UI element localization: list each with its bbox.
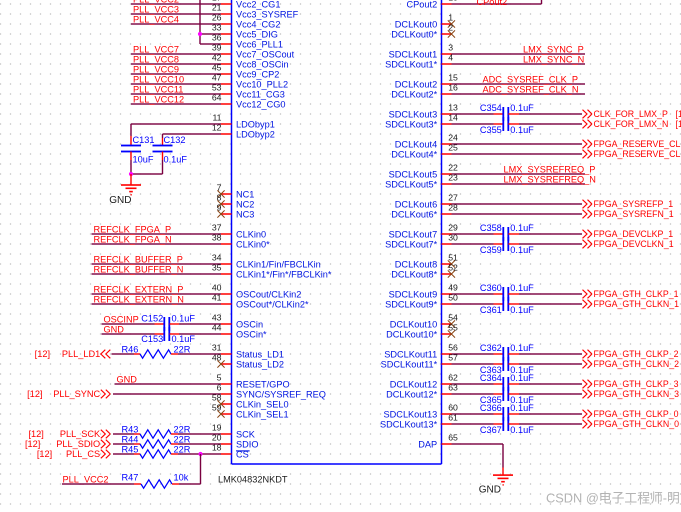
svg-text:SDCLKout3: SDCLKout3 bbox=[389, 110, 438, 120]
svg-text:FPGA_GTH_CLKN_1: FPGA_GTH_CLKN_1 bbox=[594, 299, 680, 309]
svg-text:0.1uF: 0.1uF bbox=[164, 155, 188, 165]
svg-text:DCLKout4*: DCLKout4* bbox=[391, 150, 437, 160]
svg-text:PLL_VCC10: PLL_VCC10 bbox=[133, 75, 184, 85]
svg-text:FPGA_GTH_CLKP_2: FPGA_GTH_CLKP_2 bbox=[594, 349, 679, 359]
svg-text:REFCLK_FPGA_P: REFCLK_FPGA_P bbox=[94, 225, 172, 235]
svg-text:9: 9 bbox=[217, 203, 222, 213]
svg-text:DAP: DAP bbox=[418, 440, 437, 450]
svg-text:CLKin1*/Fin*/FBCLKin*: CLKin1*/Fin*/FBCLKin* bbox=[236, 270, 332, 280]
svg-text:36: 36 bbox=[212, 33, 222, 43]
svg-text:49: 49 bbox=[448, 283, 458, 293]
svg-text:C132: C132 bbox=[164, 135, 186, 145]
svg-text:GND: GND bbox=[479, 484, 501, 495]
svg-text:55: 55 bbox=[448, 323, 458, 333]
svg-text:47: 47 bbox=[212, 73, 222, 83]
svg-text:REFCLK_EXTERN_P: REFCLK_EXTERN_P bbox=[94, 285, 184, 295]
svg-text:43: 43 bbox=[212, 313, 222, 323]
svg-text:CSDN @电子工程师-明: CSDN @电子工程师-明 bbox=[546, 491, 680, 506]
svg-text:22R: 22R bbox=[174, 444, 191, 454]
svg-text:C355: C355 bbox=[480, 125, 502, 135]
svg-text:C354: C354 bbox=[480, 103, 502, 113]
svg-text:C359: C359 bbox=[480, 245, 502, 255]
svg-text:SDCLKout13: SDCLKout13 bbox=[384, 410, 438, 420]
svg-text:R44: R44 bbox=[122, 434, 139, 444]
svg-text:PLL_SDIO: PLL_SDIO bbox=[56, 439, 100, 449]
svg-text:0.1uF: 0.1uF bbox=[510, 125, 534, 135]
svg-text:[12]: [12] bbox=[25, 439, 40, 449]
svg-text:10uF: 10uF bbox=[133, 155, 154, 165]
svg-text:51: 51 bbox=[448, 253, 458, 263]
svg-text:DCLKout4: DCLKout4 bbox=[395, 140, 437, 150]
svg-text:29: 29 bbox=[448, 223, 458, 233]
svg-text:0.1uF: 0.1uF bbox=[172, 314, 196, 324]
svg-text:C361: C361 bbox=[480, 305, 502, 315]
svg-text:57: 57 bbox=[448, 353, 458, 363]
svg-text:61: 61 bbox=[448, 413, 458, 423]
svg-text:22R: 22R bbox=[174, 434, 191, 444]
svg-text:NC2: NC2 bbox=[236, 200, 254, 210]
svg-text:SDCLKout3*: SDCLKout3* bbox=[385, 120, 438, 130]
svg-text:3: 3 bbox=[448, 43, 453, 53]
svg-text:CLKin1/Fin/FBCLKin: CLKin1/Fin/FBCLKin bbox=[236, 260, 321, 270]
svg-text:0.1uF: 0.1uF bbox=[510, 245, 534, 255]
svg-text:0.1uF: 0.1uF bbox=[510, 305, 534, 315]
svg-text:0.1uF: 0.1uF bbox=[510, 343, 534, 353]
svg-text:34: 34 bbox=[212, 253, 222, 263]
svg-text:64: 64 bbox=[212, 93, 222, 103]
svg-text:21: 21 bbox=[212, 3, 222, 13]
svg-text:OSCout/CLKin2: OSCout/CLKin2 bbox=[236, 290, 301, 300]
svg-text:CLK_FOR_LMX_P: CLK_FOR_LMX_P bbox=[594, 109, 668, 119]
svg-text:LMX_SYSREFREQ_N: LMX_SYSREFREQ_N bbox=[504, 175, 596, 185]
svg-text:PLL_VCC7: PLL_VCC7 bbox=[133, 45, 179, 55]
svg-text:14: 14 bbox=[448, 113, 458, 123]
svg-text:CLKin0*: CLKin0* bbox=[236, 240, 270, 250]
svg-text:Vcc4_CG2: Vcc4_CG2 bbox=[236, 20, 280, 30]
svg-text:FPGA_GTH_CLKP_3: FPGA_GTH_CLKP_3 bbox=[594, 379, 679, 389]
svg-text:CLK_FOR_LMX_N: CLK_FOR_LMX_N bbox=[594, 119, 669, 129]
svg-text:22R: 22R bbox=[174, 424, 191, 434]
svg-text:R43: R43 bbox=[122, 424, 139, 434]
svg-text:SDCLKout9: SDCLKout9 bbox=[389, 290, 438, 300]
svg-text:OSCout*/CLKin2*: OSCout*/CLKin2* bbox=[236, 300, 309, 310]
svg-text:DCLKout12*: DCLKout12* bbox=[386, 390, 437, 400]
svg-text:SDCLKout9*: SDCLKout9* bbox=[385, 300, 438, 310]
svg-text:Vcc12_CG0: Vcc12_CG0 bbox=[236, 100, 286, 110]
svg-text:Vcc10_PLL2: Vcc10_PLL2 bbox=[236, 80, 288, 90]
svg-text:20: 20 bbox=[212, 433, 222, 443]
svg-text:LMX_SYNC_P: LMX_SYNC_P bbox=[523, 45, 584, 55]
svg-text:NC1: NC1 bbox=[236, 190, 254, 200]
svg-text:65: 65 bbox=[448, 433, 458, 443]
svg-text:SDCLKout5*: SDCLKout5* bbox=[385, 180, 438, 190]
svg-text:DCLKout10*: DCLKout10* bbox=[386, 330, 437, 340]
svg-text:Vcc2_CG1: Vcc2_CG1 bbox=[236, 0, 280, 10]
svg-text:C131: C131 bbox=[133, 135, 155, 145]
svg-text:[12]: [12] bbox=[28, 429, 43, 439]
svg-text:PLL_VCC8: PLL_VCC8 bbox=[133, 55, 179, 65]
svg-text:DCLKout6: DCLKout6 bbox=[395, 200, 437, 210]
svg-text:45: 45 bbox=[212, 63, 222, 73]
svg-text:C367: C367 bbox=[480, 425, 502, 435]
svg-text:Vcc9_CP2: Vcc9_CP2 bbox=[236, 70, 279, 80]
svg-text:PLL_VCC4: PLL_VCC4 bbox=[133, 15, 179, 25]
svg-text:SDCLKout11: SDCLKout11 bbox=[384, 350, 437, 360]
svg-text:FPGA_GTH_CLKN_0: FPGA_GTH_CLKN_0 bbox=[594, 419, 680, 429]
svg-text:59: 59 bbox=[212, 403, 222, 413]
svg-text:LDObyp2: LDObyp2 bbox=[236, 130, 275, 140]
svg-text:53: 53 bbox=[212, 83, 222, 93]
svg-text:C362: C362 bbox=[480, 343, 502, 353]
svg-text:RESET/GPO: RESET/GPO bbox=[236, 380, 290, 390]
svg-text:REFCLK_BUFFER_N: REFCLK_BUFFER_N bbox=[94, 265, 184, 275]
svg-text:FPGA_DEVCLKP_1: FPGA_DEVCLKP_1 bbox=[594, 229, 674, 239]
svg-text:Vcc3_SYSREF: Vcc3_SYSREF bbox=[236, 10, 299, 20]
svg-text:DCLKout10: DCLKout10 bbox=[390, 320, 438, 330]
svg-text:0.1uF: 0.1uF bbox=[510, 373, 534, 383]
svg-text:CPout2: CPout2 bbox=[477, 0, 508, 7]
svg-text:33: 33 bbox=[212, 23, 222, 33]
svg-text:0.1uF: 0.1uF bbox=[510, 223, 534, 233]
svg-text:PLL_VCC12: PLL_VCC12 bbox=[133, 95, 184, 105]
svg-text:31: 31 bbox=[212, 343, 222, 353]
svg-text:ADC_SYSREF_CLK_N: ADC_SYSREF_CLK_N bbox=[483, 85, 579, 95]
svg-text:GND: GND bbox=[117, 375, 138, 385]
svg-text:5: 5 bbox=[217, 373, 222, 383]
svg-text:FPGA_DEVCLKN_1: FPGA_DEVCLKN_1 bbox=[594, 239, 674, 249]
svg-text:PLL_VCC2: PLL_VCC2 bbox=[63, 475, 109, 485]
svg-text:13: 13 bbox=[448, 103, 458, 113]
svg-text:10: 10 bbox=[448, 0, 458, 3]
svg-text:23: 23 bbox=[448, 173, 458, 183]
svg-text:56: 56 bbox=[448, 343, 458, 353]
svg-text:PLL_VCC9: PLL_VCC9 bbox=[133, 65, 179, 75]
svg-text:DCLKout0*: DCLKout0* bbox=[391, 30, 437, 40]
svg-text:7: 7 bbox=[217, 183, 222, 193]
svg-text:CLKin0: CLKin0 bbox=[236, 230, 266, 240]
svg-text:C364: C364 bbox=[480, 373, 502, 383]
svg-text:DCLKout12: DCLKout12 bbox=[390, 380, 438, 390]
svg-text:SDCLKout11*: SDCLKout11* bbox=[381, 360, 438, 370]
svg-text:50: 50 bbox=[448, 293, 458, 303]
svg-text:FPGA_GTH_CLKP_1: FPGA_GTH_CLKP_1 bbox=[594, 289, 679, 299]
svg-text:FPGA_GTH_CLKP_0: FPGA_GTH_CLKP_0 bbox=[594, 409, 679, 419]
svg-text:FPGA_RESERVE_CLK_P: FPGA_RESERVE_CLK_P bbox=[594, 139, 681, 149]
svg-text:PLL_VCC3: PLL_VCC3 bbox=[133, 5, 179, 15]
svg-text:PLL_LD1: PLL_LD1 bbox=[62, 349, 100, 359]
svg-text:DCLKout8*: DCLKout8* bbox=[391, 270, 437, 280]
svg-text:SDIO: SDIO bbox=[236, 440, 258, 450]
svg-text:40: 40 bbox=[212, 283, 222, 293]
svg-text:PLL_VCC11: PLL_VCC11 bbox=[133, 85, 183, 95]
svg-text:38: 38 bbox=[212, 233, 222, 243]
svg-text:0.1uF: 0.1uF bbox=[510, 403, 534, 413]
svg-text:LMX_SYSREFREQ_P: LMX_SYSREFREQ_P bbox=[504, 165, 596, 175]
svg-text:PLL_CS: PLL_CS bbox=[66, 449, 100, 459]
svg-text:0.1uF: 0.1uF bbox=[510, 283, 534, 293]
svg-text:Status_LD1: Status_LD1 bbox=[236, 350, 284, 360]
svg-text:15: 15 bbox=[448, 73, 458, 83]
svg-text:C152: C152 bbox=[141, 314, 163, 324]
svg-text:DCLKout2: DCLKout2 bbox=[395, 80, 437, 90]
svg-text:25: 25 bbox=[448, 143, 458, 153]
svg-text:CPout2: CPout2 bbox=[407, 0, 438, 10]
svg-text:R45: R45 bbox=[122, 444, 139, 454]
svg-text:SDCLKout5: SDCLKout5 bbox=[389, 170, 438, 180]
svg-text:26: 26 bbox=[212, 13, 222, 23]
svg-text:REFCLK_EXTERN_N: REFCLK_EXTERN_N bbox=[94, 295, 184, 305]
svg-text:FPGA_GTH_CLKN_3: FPGA_GTH_CLKN_3 bbox=[594, 389, 680, 399]
svg-text:DCLKout8: DCLKout8 bbox=[395, 260, 437, 270]
svg-text:OSCin: OSCin bbox=[236, 320, 263, 330]
svg-text:C153: C153 bbox=[141, 334, 163, 344]
svg-text:CLKin_SEL0: CLKin_SEL0 bbox=[236, 400, 289, 410]
svg-text:54: 54 bbox=[448, 313, 458, 323]
svg-text:GND: GND bbox=[109, 195, 131, 206]
svg-text:[12]: [12] bbox=[37, 449, 52, 459]
svg-text:LDObyp1: LDObyp1 bbox=[236, 120, 275, 130]
svg-text:24: 24 bbox=[448, 133, 458, 143]
svg-text:GND: GND bbox=[104, 325, 125, 335]
svg-text:LMK04832NKDT: LMK04832NKDT bbox=[218, 475, 288, 485]
svg-text:Vcc11_CG3: Vcc11_CG3 bbox=[236, 90, 285, 100]
svg-text:Vcc5_DIG: Vcc5_DIG bbox=[236, 30, 278, 40]
svg-text:FPGA_GTH_CLKN_2: FPGA_GTH_CLKN_2 bbox=[594, 359, 680, 369]
svg-text:REFCLK_BUFFER_P: REFCLK_BUFFER_P bbox=[94, 255, 183, 265]
svg-text:OSCin*: OSCin* bbox=[236, 330, 267, 340]
svg-text:6: 6 bbox=[217, 383, 222, 393]
svg-text:37: 37 bbox=[212, 223, 222, 233]
svg-text:22: 22 bbox=[448, 163, 458, 173]
svg-text:Vcc7_OSCout: Vcc7_OSCout bbox=[236, 50, 295, 60]
svg-text:NC3: NC3 bbox=[236, 210, 254, 220]
svg-text:30: 30 bbox=[448, 233, 458, 243]
svg-text:DCLKout0: DCLKout0 bbox=[395, 20, 437, 30]
svg-text:52: 52 bbox=[448, 263, 458, 273]
svg-text:10k: 10k bbox=[174, 473, 189, 483]
svg-text:60: 60 bbox=[448, 403, 458, 413]
svg-text:SCK: SCK bbox=[236, 430, 256, 440]
svg-text:16: 16 bbox=[448, 83, 458, 93]
svg-text:LMX_SYNC_N: LMX_SYNC_N bbox=[523, 55, 584, 65]
svg-text:Vcc6_PLL1: Vcc6_PLL1 bbox=[236, 40, 283, 50]
svg-text:0.1uF: 0.1uF bbox=[510, 103, 534, 113]
svg-text:62: 62 bbox=[448, 373, 458, 383]
svg-text:C366: C366 bbox=[480, 403, 502, 413]
svg-text:[1: [1 bbox=[676, 119, 681, 129]
svg-text:FPGA_SYSREFN_1: FPGA_SYSREFN_1 bbox=[594, 209, 674, 219]
svg-text:SDCLKout1*: SDCLKout1* bbox=[385, 60, 438, 70]
svg-text:0.1uF: 0.1uF bbox=[172, 334, 196, 344]
svg-text:C358: C358 bbox=[480, 223, 502, 233]
svg-text:OSCINP: OSCINP bbox=[104, 315, 139, 325]
svg-text:63: 63 bbox=[448, 383, 458, 393]
svg-text:19: 19 bbox=[212, 423, 222, 433]
svg-text:44: 44 bbox=[212, 323, 222, 333]
svg-text:R47: R47 bbox=[122, 473, 139, 483]
svg-text:4: 4 bbox=[448, 53, 453, 63]
svg-text:Vcc8_OSCin: Vcc8_OSCin bbox=[236, 60, 289, 70]
svg-text:SDCLKout7: SDCLKout7 bbox=[389, 230, 438, 240]
svg-text:SYNC/SYSREF_REQ: SYNC/SYSREF_REQ bbox=[236, 390, 326, 400]
svg-text:18: 18 bbox=[212, 443, 222, 453]
svg-text:DCLKout2*: DCLKout2* bbox=[391, 90, 437, 100]
svg-text:DCLKout6*: DCLKout6* bbox=[391, 210, 437, 220]
svg-text:CLKin_SEL1: CLKin_SEL1 bbox=[236, 410, 289, 420]
svg-text:Status_LD2: Status_LD2 bbox=[236, 360, 284, 370]
svg-text:35: 35 bbox=[212, 263, 222, 273]
svg-text:22R: 22R bbox=[174, 344, 191, 354]
svg-text:[12]: [12] bbox=[27, 389, 42, 399]
svg-text:11: 11 bbox=[212, 113, 221, 123]
svg-text:27: 27 bbox=[448, 193, 458, 203]
svg-text:PLL_SCK: PLL_SCK bbox=[60, 429, 101, 439]
svg-text:28: 28 bbox=[448, 203, 458, 213]
svg-text:SDCLKout1: SDCLKout1 bbox=[389, 50, 438, 60]
svg-text:SDCLKout13*: SDCLKout13* bbox=[380, 420, 438, 430]
svg-text:[12]: [12] bbox=[35, 349, 50, 359]
svg-text:SDCLKout7*: SDCLKout7* bbox=[385, 240, 438, 250]
svg-text:C360: C360 bbox=[480, 283, 502, 293]
svg-text:0.1uF: 0.1uF bbox=[510, 425, 534, 435]
svg-text:[1: [1 bbox=[676, 109, 681, 119]
svg-text:REFCLK_FPGA_N: REFCLK_FPGA_N bbox=[94, 235, 172, 245]
svg-text:FPGA_SYSREFP_1: FPGA_SYSREFP_1 bbox=[594, 199, 674, 209]
svg-text:39: 39 bbox=[212, 43, 222, 53]
svg-text:48: 48 bbox=[212, 353, 222, 363]
svg-text:FPGA_RESERVE_CLK_N: FPGA_RESERVE_CLK_N bbox=[594, 149, 681, 159]
svg-text:8: 8 bbox=[217, 193, 222, 203]
svg-text:58: 58 bbox=[212, 393, 222, 403]
svg-text:41: 41 bbox=[212, 293, 222, 303]
svg-text:ADC_SYSREF_CLK_P: ADC_SYSREF_CLK_P bbox=[483, 75, 579, 85]
svg-text:PLL_SYNC: PLL_SYNC bbox=[53, 389, 100, 399]
svg-text:R46: R46 bbox=[122, 344, 139, 354]
svg-text:42: 42 bbox=[212, 53, 222, 63]
